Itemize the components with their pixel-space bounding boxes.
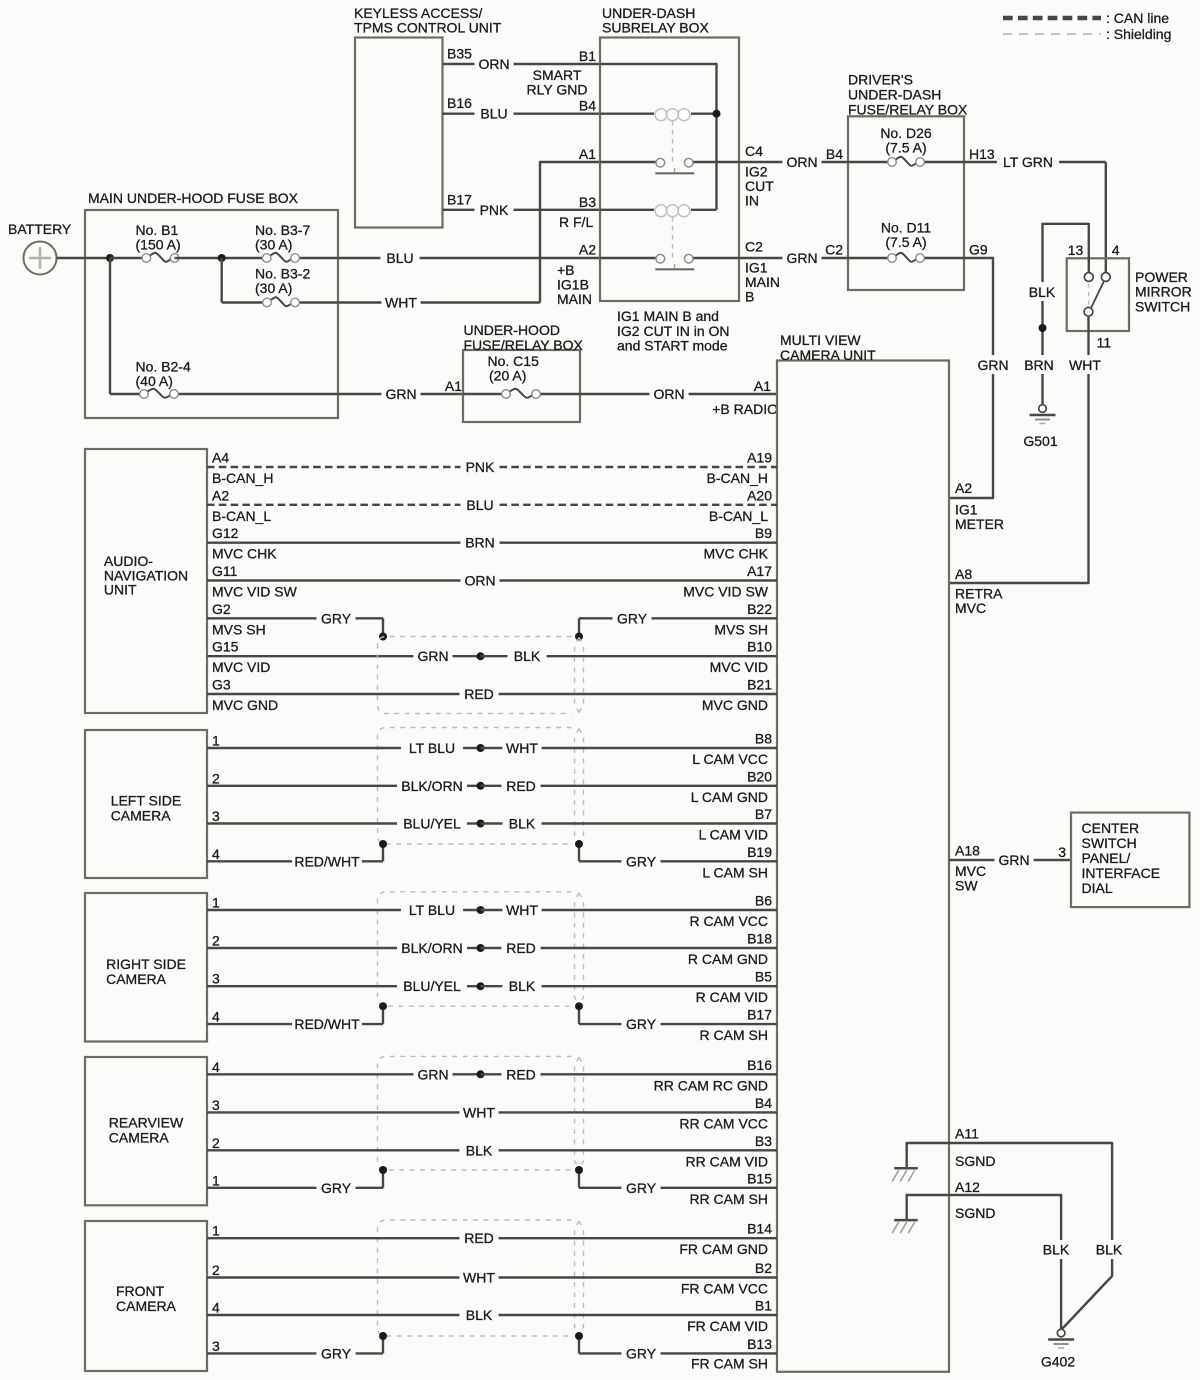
ground chassis A11 — [894, 1167, 918, 1170]
shield box right side camera — [378, 892, 572, 1006]
svg-text:1: 1 — [212, 1172, 220, 1188]
svg-text:G402: G402 — [1041, 1354, 1075, 1370]
svg-text:A20: A20 — [747, 487, 772, 503]
node shield dot left-cam right — [575, 840, 583, 848]
svg-text:UNDER-DASH: UNDER-DASH — [848, 87, 941, 103]
svg-text:GRY: GRY — [626, 1180, 657, 1196]
shield box rearview camera — [378, 1056, 572, 1170]
svg-text:B18: B18 — [747, 931, 772, 947]
svg-text:B2: B2 — [755, 1260, 772, 1276]
node shield dot right-cam right — [575, 1002, 583, 1010]
svg-text:H13: H13 — [969, 146, 995, 162]
node shield dot right-cam left — [379, 1002, 387, 1010]
svg-text:MVC GND: MVC GND — [212, 697, 278, 713]
svg-text:RED: RED — [506, 1066, 536, 1082]
box UNDER-DASH SUBRELAY BOX — [600, 38, 739, 302]
box MULTI VIEW CAMERA UNIT — [777, 361, 949, 1372]
svg-text:B4: B4 — [826, 146, 843, 162]
svg-text:2: 2 — [212, 933, 220, 949]
svg-text:WHT: WHT — [1069, 357, 1101, 373]
wire ORN C4 to driver box B4 — [739, 161, 782, 163]
svg-text:ORN: ORN — [464, 573, 495, 589]
svg-text:BRN: BRN — [1024, 357, 1054, 373]
svg-text:SGND: SGND — [955, 1153, 995, 1169]
svg-text:B16: B16 — [447, 95, 472, 111]
svg-text:C4: C4 — [745, 143, 763, 159]
svg-text:C2: C2 — [745, 239, 763, 255]
node junction coil1 right — [713, 110, 721, 118]
svg-text:A2: A2 — [955, 480, 972, 496]
svg-text:A4: A4 — [212, 450, 229, 466]
svg-text:(20 A): (20 A) — [489, 368, 526, 384]
svg-text:RR CAM SH: RR CAM SH — [689, 1191, 768, 1207]
svg-text:1: 1 — [212, 895, 220, 911]
svg-text:MVC VID SW: MVC VID SW — [683, 584, 769, 600]
svg-text:A1: A1 — [445, 378, 462, 394]
svg-text:CENTER: CENTER — [1082, 820, 1140, 836]
svg-text:GRY: GRY — [321, 610, 352, 626]
node shield dot front right — [575, 1332, 583, 1340]
svg-text:GRY: GRY — [626, 1345, 657, 1361]
wire L CAM SH GRY right hook — [578, 844, 580, 861]
box REARVIEW CAMERA — [85, 1057, 207, 1205]
svg-text:BLK/ORN: BLK/ORN — [401, 778, 462, 794]
box RIGHT SIDE CAMERA — [85, 893, 207, 1042]
svg-text:B1: B1 — [755, 1298, 772, 1314]
svg-text:GRY: GRY — [321, 1180, 352, 1196]
svg-text:G2: G2 — [212, 601, 231, 617]
svg-text:R CAM VCC: R CAM VCC — [689, 913, 768, 929]
node shield dot left-cam left — [379, 840, 387, 848]
svg-text:RED: RED — [464, 686, 494, 702]
svg-text:B13: B13 — [747, 1336, 772, 1352]
svg-text:TPMS CONTROL UNIT: TPMS CONTROL UNIT — [354, 19, 502, 35]
svg-text:A12: A12 — [955, 1179, 980, 1195]
svg-text:BLU: BLU — [466, 497, 493, 513]
svg-text:A11: A11 — [955, 1126, 979, 1142]
svg-text:BLU: BLU — [386, 250, 413, 266]
svg-text:BLU/YEL: BLU/YEL — [403, 978, 461, 994]
svg-text:WHT: WHT — [463, 1270, 495, 1286]
svg-text:4: 4 — [212, 1300, 220, 1316]
svg-text:B17: B17 — [747, 1007, 772, 1023]
svg-text:L CAM VID: L CAM VID — [699, 827, 769, 843]
svg-text:1: 1 — [212, 733, 220, 749]
svg-text:B19: B19 — [747, 844, 772, 860]
svg-text:IG2 CUT IN in ON: IG2 CUT IN in ON — [617, 323, 730, 339]
svg-text:WHT: WHT — [506, 902, 538, 918]
svg-text:B17: B17 — [447, 191, 472, 207]
svg-text:B-CAN_H: B-CAN_H — [212, 470, 273, 486]
svg-text:LT GRN: LT GRN — [1003, 154, 1053, 170]
svg-text:WHT: WHT — [385, 295, 417, 311]
shield box front camera — [378, 1220, 572, 1336]
svg-text:MVC GND: MVC GND — [702, 697, 768, 713]
wire R CAM SH GRY right hook — [578, 1006, 580, 1024]
shield box audio (Shielding) — [378, 637, 572, 714]
svg-text:MVS SH: MVS SH — [714, 621, 768, 637]
svg-text:CAMERA UNIT: CAMERA UNIT — [780, 347, 876, 363]
wire GRN C2 to driver box C2 — [739, 257, 782, 259]
svg-text:BLK: BLK — [1043, 1242, 1070, 1258]
svg-text:GRN: GRN — [417, 1066, 448, 1082]
svg-text:B10: B10 — [747, 639, 772, 655]
svg-text:RR CAM VID: RR CAM VID — [686, 1153, 768, 1169]
svg-text:UNDER-HOOD: UNDER-HOOD — [464, 322, 560, 338]
svg-text:GRN: GRN — [977, 357, 1008, 373]
svg-text:FUSE/RELAY BOX: FUSE/RELAY BOX — [464, 337, 584, 353]
svg-text:4: 4 — [212, 1059, 220, 1075]
box LEFT SIDE CAMERA — [85, 730, 207, 878]
svg-text:B5: B5 — [755, 969, 772, 985]
svg-text:POWER: POWER — [1135, 269, 1188, 285]
svg-text:RLY GND: RLY GND — [527, 82, 588, 98]
legend CAN line sample — [1003, 16, 1101, 21]
svg-text:R CAM SH: R CAM SH — [700, 1027, 768, 1043]
svg-text:BLK: BLK — [466, 1142, 493, 1158]
svg-text:PNK: PNK — [480, 202, 509, 218]
node junction BLK/BRN splice — [1039, 324, 1047, 332]
svg-text:RED/WHT: RED/WHT — [294, 853, 360, 869]
node shield dot rearview left — [379, 1166, 387, 1174]
svg-text:BLU/YEL: BLU/YEL — [403, 816, 461, 832]
svg-text:GRN: GRN — [417, 648, 448, 664]
svg-text:B21: B21 — [747, 677, 772, 693]
box DRIVER'S UNDER-DASH FUSE/RELAY BOX — [848, 116, 964, 290]
svg-text:MVS SH: MVS SH — [212, 621, 266, 637]
svg-text:RIGHT SIDE: RIGHT SIDE — [106, 956, 186, 972]
svg-text:BRN: BRN — [465, 535, 495, 551]
svg-text:GRY: GRY — [617, 610, 648, 626]
svg-text:A19: A19 — [747, 450, 772, 466]
svg-text:A2: A2 — [212, 487, 229, 503]
svg-text:PNK: PNK — [466, 459, 495, 475]
relay coil K1 (IG2 CUT IN) — [600, 112, 654, 114]
svg-text:(7.5 A): (7.5 A) — [885, 140, 926, 156]
svg-text:3: 3 — [212, 1097, 220, 1113]
svg-text:R F/L: R F/L — [559, 214, 593, 230]
svg-text:IG1 MAIN B and: IG1 MAIN B and — [617, 308, 719, 324]
svg-text:SGND: SGND — [955, 1205, 995, 1221]
svg-text:2: 2 — [212, 1262, 220, 1278]
svg-text:: Shielding: : Shielding — [1106, 26, 1171, 42]
svg-text:L CAM SH: L CAM SH — [702, 864, 768, 880]
svg-text:METER: METER — [955, 516, 1004, 532]
box MAIN UNDER-HOOD FUSE BOX — [85, 210, 338, 418]
svg-text:FRONT: FRONT — [116, 1283, 165, 1299]
svg-text:FR CAM VID: FR CAM VID — [687, 1318, 768, 1334]
ground G501 — [1039, 405, 1047, 413]
svg-text:B: B — [745, 289, 754, 305]
svg-text:L CAM GND: L CAM GND — [691, 789, 768, 805]
node junction B3 branch — [218, 254, 226, 262]
svg-text:MVC: MVC — [955, 600, 986, 616]
svg-text:G12: G12 — [212, 525, 239, 541]
svg-text:CAMERA: CAMERA — [106, 971, 167, 987]
svg-text:2: 2 — [212, 1135, 220, 1151]
svg-text:ORN: ORN — [786, 154, 817, 170]
svg-text:B9: B9 — [755, 525, 772, 541]
svg-text:BLK: BLK — [509, 978, 536, 994]
svg-text:G501: G501 — [1023, 433, 1057, 449]
svg-text:1: 1 — [212, 1223, 220, 1239]
svg-text:PANEL/: PANEL/ — [1082, 850, 1131, 866]
svg-text:ORN: ORN — [478, 56, 509, 72]
svg-text:4: 4 — [212, 1009, 220, 1025]
svg-text:ORN: ORN — [653, 386, 684, 402]
svg-text:B-CAN_L: B-CAN_L — [709, 508, 768, 524]
svg-text:: CAN line: : CAN line — [1106, 10, 1169, 26]
svg-text:BLK: BLK — [1029, 284, 1056, 300]
svg-text:4: 4 — [1112, 242, 1120, 258]
svg-text:4: 4 — [212, 846, 220, 862]
svg-text:RED: RED — [506, 940, 536, 956]
svg-text:CAMERA: CAMERA — [109, 1130, 170, 1146]
svg-text:(150 A): (150 A) — [136, 237, 181, 253]
svg-text:RED: RED — [464, 1230, 494, 1246]
svg-text:B20: B20 — [747, 768, 772, 784]
svg-text:CAMERA: CAMERA — [116, 1298, 177, 1314]
svg-text:B3: B3 — [579, 194, 596, 210]
svg-text:GRN: GRN — [385, 386, 416, 402]
svg-text:MVC VID SW: MVC VID SW — [212, 584, 298, 600]
node junction battery bus left — [106, 254, 114, 262]
svg-text:LT BLU: LT BLU — [409, 902, 455, 918]
wire RR CAM SH GRY right hook — [578, 1170, 580, 1188]
wire battery to fuse box — [57, 257, 111, 259]
ground chassis A12 — [894, 1219, 918, 1222]
svg-text:13: 13 — [1068, 242, 1084, 258]
svg-text:G11: G11 — [212, 563, 238, 579]
svg-text:MVC VID: MVC VID — [710, 659, 768, 675]
svg-text:RR CAM VCC: RR CAM VCC — [679, 1115, 768, 1131]
svg-text:SWITCH: SWITCH — [1135, 298, 1190, 314]
legend Shielding sample — [1003, 33, 1101, 35]
svg-text:UNIT: UNIT — [104, 582, 137, 598]
svg-text:and START mode: and START mode — [617, 338, 728, 354]
node shield dot audio left — [379, 633, 387, 641]
svg-text:SWITCH: SWITCH — [1082, 835, 1137, 851]
svg-text:B16: B16 — [747, 1057, 772, 1073]
svg-text:(40 A): (40 A) — [136, 373, 173, 389]
box AUDIO-NAVIGATION UNIT — [85, 449, 207, 713]
svg-text:B22: B22 — [747, 601, 772, 617]
svg-text:GRN: GRN — [786, 250, 817, 266]
box POWER MIRROR SWITCH — [1067, 258, 1129, 331]
svg-text:3: 3 — [212, 808, 220, 824]
svg-text:IN: IN — [745, 193, 759, 209]
svg-text:B4: B4 — [755, 1095, 772, 1111]
svg-text:B1: B1 — [579, 48, 596, 64]
svg-text:MVC CHK: MVC CHK — [703, 546, 768, 562]
wire branch down to B3-2 — [220, 258, 222, 303]
svg-text:R CAM GND: R CAM GND — [688, 951, 768, 967]
svg-text:MIRROR: MIRROR — [1135, 284, 1192, 300]
svg-text:FR CAM GND: FR CAM GND — [679, 1241, 768, 1257]
svg-text:(30 A): (30 A) — [255, 237, 292, 253]
svg-text:DIAL: DIAL — [1082, 880, 1113, 896]
relay contact K1 — [600, 161, 657, 163]
svg-text:R CAM VID: R CAM VID — [696, 989, 768, 1005]
wire branch down to B2-4 — [109, 258, 111, 394]
svg-text:BLU: BLU — [480, 106, 507, 122]
svg-text:A1: A1 — [579, 146, 596, 162]
node shield dot front left — [379, 1332, 387, 1340]
wire GRN to under-hood fuse box — [338, 393, 381, 395]
svg-text:DRIVER'S: DRIVER'S — [848, 72, 913, 88]
wire WHT to subrelay A1 — [338, 301, 381, 303]
svg-text:BATTERY: BATTERY — [8, 221, 72, 237]
svg-text:LT BLU: LT BLU — [409, 740, 455, 756]
wire BLU to subrelay A2 — [338, 257, 380, 259]
svg-text:BLK: BLK — [514, 648, 541, 664]
svg-text:GRN: GRN — [998, 852, 1029, 868]
wire B1 internal to relay commons — [600, 64, 717, 210]
svg-text:WHT: WHT — [506, 740, 538, 756]
svg-text:A17: A17 — [747, 563, 772, 579]
box FRONT CAMERA — [85, 1221, 207, 1371]
svg-text:INTERFACE: INTERFACE — [1082, 865, 1161, 881]
svg-text:A18: A18 — [955, 843, 980, 859]
wire fuse B1 to junction — [175, 257, 268, 259]
svg-text:G15: G15 — [212, 639, 239, 655]
svg-text:B7: B7 — [755, 806, 772, 822]
svg-text:FR CAM SH: FR CAM SH — [691, 1356, 768, 1372]
svg-text:B8: B8 — [755, 731, 772, 747]
box CENTER SWITCH PANEL/INTERFACE DIAL — [1071, 813, 1189, 908]
svg-text:LEFT SIDE: LEFT SIDE — [111, 792, 182, 808]
svg-text:WHT: WHT — [463, 1104, 495, 1120]
svg-text:3: 3 — [1058, 844, 1066, 860]
svg-text:BLK: BLK — [466, 1307, 493, 1323]
svg-text:GRY: GRY — [626, 853, 657, 869]
svg-text:MVC CHK: MVC CHK — [212, 546, 277, 562]
svg-text:FR CAM VCC: FR CAM VCC — [681, 1281, 768, 1297]
svg-text:MULTI VIEW: MULTI VIEW — [780, 332, 861, 348]
svg-text:FUSE/RELAY BOX: FUSE/RELAY BOX — [848, 102, 968, 118]
svg-text:BLK: BLK — [1096, 1242, 1123, 1258]
svg-text:SW: SW — [955, 878, 978, 894]
node shield dot rearview right — [575, 1166, 583, 1174]
ground G402 — [1057, 1329, 1065, 1337]
shield box left side camera — [378, 728, 572, 845]
wire bus to fuse B1 — [110, 257, 146, 259]
svg-text:B-CAN_H: B-CAN_H — [707, 470, 768, 486]
svg-text:B4: B4 — [579, 98, 596, 114]
svg-text:B-CAN_L: B-CAN_L — [212, 508, 271, 524]
svg-text:SUBRELAY BOX: SUBRELAY BOX — [602, 19, 710, 35]
svg-text:11: 11 — [1097, 335, 1112, 351]
wire MVS SH GRY right hook — [578, 618, 580, 636]
svg-text:G3: G3 — [212, 677, 231, 693]
svg-text:CAMERA: CAMERA — [111, 807, 172, 823]
relay contact K2 — [600, 257, 657, 259]
svg-text:MAIN: MAIN — [557, 291, 592, 307]
svg-text:C2: C2 — [825, 242, 843, 258]
svg-text:BLK/ORN: BLK/ORN — [401, 940, 462, 956]
svg-text:MAIN UNDER-HOOD FUSE BOX: MAIN UNDER-HOOD FUSE BOX — [88, 190, 299, 206]
box KEYLESS ACCESS/TPMS CONTROL UNIT — [355, 38, 443, 228]
wire FR CAM SH GRY right hook — [578, 1336, 580, 1353]
svg-text:(7.5 A): (7.5 A) — [885, 234, 926, 250]
svg-text:REARVIEW: REARVIEW — [109, 1115, 184, 1131]
svg-text:(30 A): (30 A) — [255, 280, 292, 296]
wire diagonal A11 BLK to G402 — [1063, 1276, 1113, 1329]
svg-text:2: 2 — [212, 770, 220, 786]
svg-text:RR CAM RC GND: RR CAM RC GND — [654, 1077, 768, 1093]
svg-text:3: 3 — [212, 971, 220, 987]
switch contacts power mirror — [1084, 273, 1093, 282]
svg-text:BLK: BLK — [509, 816, 536, 832]
box UNDER-HOOD FUSE/RELAY BOX — [463, 350, 580, 422]
svg-text:+B RADIO: +B RADIO — [712, 401, 778, 417]
svg-text:L CAM VCC: L CAM VCC — [692, 751, 768, 767]
svg-text:B35: B35 — [447, 46, 472, 62]
svg-text:B14: B14 — [747, 1221, 772, 1237]
node shield dot audio right — [575, 633, 583, 641]
svg-text:GRY: GRY — [321, 1345, 352, 1361]
svg-text:B3: B3 — [755, 1133, 772, 1149]
svg-text:A8: A8 — [955, 566, 972, 582]
relay coil K2 (IG1 MAIN) — [600, 209, 654, 211]
svg-text:RED: RED — [506, 778, 536, 794]
svg-text:B6: B6 — [755, 893, 772, 909]
wire ORN to MVC A1 — [580, 393, 649, 395]
svg-text:3: 3 — [212, 1338, 220, 1354]
svg-text:RED/WHT: RED/WHT — [294, 1016, 360, 1032]
svg-text:B15: B15 — [747, 1170, 772, 1186]
svg-text:A2: A2 — [579, 242, 596, 258]
svg-text:A1: A1 — [754, 378, 771, 394]
svg-text:MVC VID: MVC VID — [212, 659, 270, 675]
svg-text:G9: G9 — [969, 242, 988, 258]
svg-text:GRY: GRY — [626, 1016, 657, 1032]
